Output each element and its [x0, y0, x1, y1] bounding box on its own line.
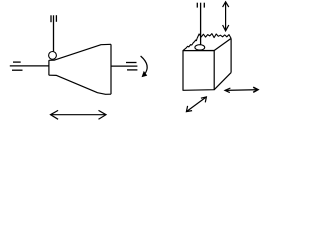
horn bottom edge	[49, 75, 111, 94]
top mount hatch left bar	[50, 15, 52, 22]
right node line	[111, 65, 137, 67]
top mount hatch right bar	[55, 15, 57, 22]
rotation arrow head	[142, 72, 146, 77]
vertical arrow top head	[223, 2, 229, 7]
right node bottom hatch	[127, 69, 137, 71]
diagonal double arrow shaft	[186, 97, 206, 112]
horizontal arrow right head	[253, 87, 258, 92]
bottom double arrow shaft	[51, 114, 107, 116]
horizontal double arrow shaft	[225, 89, 258, 92]
diagonal arrow upper head	[201, 97, 207, 103]
vertical stem to roller	[53, 15, 55, 51]
horn mouth edge	[110, 44, 112, 94]
rough surface back edge	[197, 34, 231, 39]
left support middle line	[10, 65, 49, 67]
tool tip ellipse	[195, 45, 205, 50]
tool hatch left bar	[196, 3, 198, 8]
bottom arrow right head	[99, 110, 107, 119]
right node top hatch	[126, 62, 137, 64]
cube back-right edge	[230, 38, 232, 72]
left support bottom hatch	[12, 69, 23, 71]
diagonal arrow lower head	[186, 106, 192, 112]
left support top hatch	[13, 61, 21, 63]
vertical double arrow shaft	[225, 2, 227, 31]
cube front face	[183, 51, 214, 91]
horn throat edge	[48, 60, 50, 75]
rough surface left edge	[183, 39, 197, 51]
tool stem	[200, 3, 202, 45]
horn top edge	[49, 44, 111, 60]
tool hatch right bar	[203, 3, 205, 8]
rotation arc arrow	[141, 56, 148, 75]
vertical arrow bottom head	[223, 25, 229, 31]
cube bottom-right edge	[214, 73, 231, 90]
horizontal arrow left head	[225, 88, 230, 93]
cube top-right edge	[214, 38, 231, 50]
roller circle	[49, 52, 57, 60]
bottom arrow left head	[51, 110, 59, 119]
